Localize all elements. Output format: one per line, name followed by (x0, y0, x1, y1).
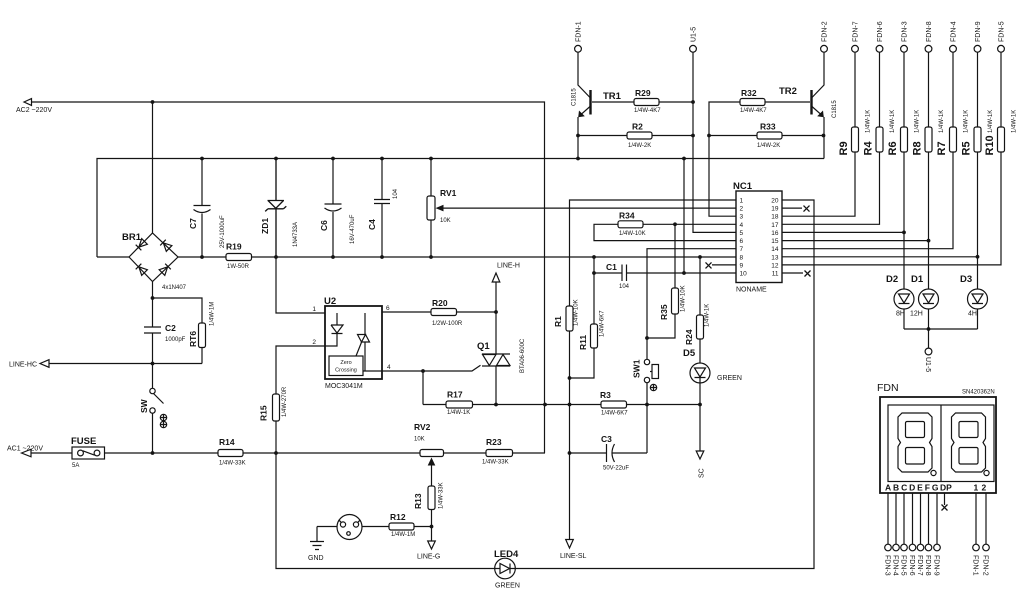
svg-text:2: 2 (982, 483, 987, 493)
svg-text:FDN-2: FDN-2 (982, 555, 989, 576)
svg-text:20: 20 (771, 198, 779, 205)
svg-text:R29: R29 (635, 88, 651, 98)
node AC1 terminal (7, 446, 43, 457)
svg-text:FUSE: FUSE (71, 436, 96, 447)
svg-text:FDN-1: FDN-1 (576, 21, 583, 42)
svg-text:1: 1 (312, 306, 316, 313)
wire FDN display pin G to terminal FDN-9 (933, 493, 941, 576)
ground GND (308, 527, 324, 563)
svg-text:1/4W-33K: 1/4W-33K (439, 482, 445, 509)
wire FDN display pin A to terminal FDN-3 (884, 493, 892, 576)
svg-text:D2: D2 (886, 274, 898, 285)
svg-text:FDN: FDN (877, 382, 899, 394)
svg-text:R13: R13 (413, 493, 423, 509)
svg-text:1: 1 (740, 198, 744, 205)
svg-text:1/4W-10K: 1/4W-10K (574, 299, 580, 326)
svg-text:1/4W-1K: 1/4W-1K (915, 110, 921, 133)
svg-text:R17: R17 (447, 390, 463, 400)
svg-text:104: 104 (619, 284, 630, 290)
potentiometer RV1 (427, 159, 457, 258)
svg-text:1/4W-2K: 1/4W-2K (628, 143, 651, 149)
wire NC1 pin19 stub (782, 206, 810, 212)
svg-text:10: 10 (740, 271, 748, 278)
wire U2 pin4 to gate and R17 (382, 365, 481, 371)
svg-text:12H: 12H (910, 311, 923, 318)
digit 1 of FDN display (898, 413, 932, 472)
svg-text:FDN-2: FDN-2 (822, 21, 829, 42)
svg-text:R33: R33 (760, 122, 776, 132)
svg-text:C4: C4 (367, 219, 377, 230)
wire emitter rail drop x684 (683, 159, 685, 274)
wire supply top rail (97, 159, 824, 258)
svg-text:AC1 ~220V: AC1 ~220V (7, 446, 43, 453)
svg-text:1W-50R: 1W-50R (227, 264, 250, 270)
svg-text:5: 5 (740, 230, 744, 237)
resistor R2 (578, 122, 695, 150)
potentiometer RV2 (414, 422, 444, 466)
wire NC1 pin7 to SW1 (647, 249, 736, 360)
zener diode ZD1 (260, 159, 299, 258)
resistor R19 (226, 242, 252, 271)
node LINE-H (492, 263, 520, 283)
svg-text:Zero: Zero (340, 360, 351, 366)
svg-text:FDN-8: FDN-8 (924, 555, 931, 576)
svg-text:1/4W-1M: 1/4W-1M (391, 532, 415, 538)
svg-text:1: 1 (974, 483, 979, 493)
resistor R9 with terminal FDN-7 to NC1 pin18 (782, 21, 872, 216)
svg-text:Crossing: Crossing (335, 368, 357, 374)
wire FDN display pin 1 to terminal FDN-1 (972, 493, 980, 576)
svg-text:R9: R9 (838, 141, 850, 155)
svg-text:2: 2 (740, 206, 744, 213)
svg-text:4x1N407: 4x1N407 (162, 285, 187, 291)
wire LED4 net from NC1 pin20 (515, 200, 814, 569)
resistor R35 (647, 222, 687, 338)
svg-text:R23: R23 (486, 437, 502, 447)
svg-text:RV2: RV2 (414, 422, 431, 432)
resistor R20 (431, 298, 463, 327)
display FDN seven-segment SN420362N (877, 382, 996, 493)
led D1 (910, 241, 939, 329)
node FDN-1 terminal (575, 21, 583, 52)
resistor R34 and loop to pin6 (594, 211, 736, 241)
wire LED4 to R15 column (276, 453, 495, 569)
svg-text:NC1: NC1 (733, 181, 753, 192)
digit 2 of FDN display (952, 413, 986, 472)
svg-text:R1: R1 (553, 316, 563, 327)
wire LED common to U1-5 terminal (904, 327, 978, 372)
svg-text:R5: R5 (961, 141, 973, 155)
svg-text:R3: R3 (600, 390, 611, 400)
svg-text:8H: 8H (896, 311, 905, 318)
svg-text:RT6: RT6 (188, 331, 198, 347)
svg-text:Q1: Q1 (477, 341, 490, 352)
svg-text:18: 18 (771, 214, 779, 221)
svg-text:104: 104 (393, 188, 399, 199)
svg-text:1/4W-6K7: 1/4W-6K7 (601, 411, 628, 417)
svg-text:16: 16 (771, 230, 779, 237)
svg-text:TR1: TR1 (603, 91, 622, 102)
transistor TR2 (765, 52, 838, 158)
svg-text:NONAME: NONAME (736, 287, 767, 294)
svg-text:FDN-4: FDN-4 (951, 21, 958, 42)
svg-text:2: 2 (312, 339, 316, 346)
wire SW1 to C3 (646, 383, 648, 453)
svg-text:FDN-4: FDN-4 (892, 555, 899, 576)
svg-text:BTA06-600C: BTA06-600C (520, 338, 526, 373)
svg-text:SC: SC (699, 468, 706, 478)
resistor R8 with terminal FDN-8 to NC1 pin15 (782, 21, 945, 242)
svg-text:R11: R11 (578, 335, 588, 350)
wire R11 bottom loop (570, 348, 595, 378)
wire AC2 bus (31, 102, 545, 453)
svg-text:1/4W-1K: 1/4W-1K (890, 110, 896, 133)
svg-text:1/4W-1K: 1/4W-1K (705, 304, 711, 327)
connector plug to GND (317, 515, 362, 540)
svg-text:9: 9 (740, 262, 744, 269)
resistor R6 with terminal FDN-3 to NC1 pin16 (782, 21, 921, 234)
svg-text:50V-22uF: 50V-22uF (603, 466, 629, 472)
svg-text:FDN-7: FDN-7 (916, 555, 923, 576)
svg-text:10K: 10K (414, 437, 425, 443)
capacitor C7 (188, 159, 226, 258)
resistor R1 (553, 299, 580, 331)
svg-text:LED4: LED4 (494, 549, 519, 560)
switch SW (139, 364, 167, 454)
svg-text:1/4W-10K: 1/4W-10K (681, 285, 687, 312)
svg-text:C1815: C1815 (572, 88, 578, 106)
resistor R15 (259, 386, 289, 421)
svg-text:1/4W-4K7: 1/4W-4K7 (740, 108, 767, 114)
svg-text:FDN-5: FDN-5 (900, 555, 907, 576)
capacitor C4 (367, 159, 399, 258)
svg-text:1/4W-33K: 1/4W-33K (219, 461, 246, 467)
led D3 (960, 257, 988, 329)
resistor R17 (446, 390, 473, 417)
svg-text:13: 13 (771, 254, 779, 261)
svg-text:RV1: RV1 (440, 188, 457, 198)
svg-text:FDN-9: FDN-9 (975, 21, 982, 42)
wire NC1 pin9 stub (706, 262, 737, 268)
svg-text:GREEN: GREEN (717, 375, 742, 382)
svg-text:U2: U2 (324, 296, 336, 307)
svg-text:16V-470uF: 16V-470uF (350, 214, 356, 244)
svg-text:FDN-5: FDN-5 (999, 21, 1006, 42)
svg-text:1/4W-4K7: 1/4W-4K7 (634, 108, 661, 114)
svg-text:1/4W-10K: 1/4W-10K (619, 231, 646, 237)
wire U2 pin2 to R15 (276, 346, 325, 453)
svg-text:R8: R8 (912, 141, 924, 155)
resistor R14 (218, 437, 246, 467)
svg-text:R12: R12 (390, 512, 406, 522)
wire FDN display pin DP stub (942, 493, 948, 511)
resistor R23 (482, 437, 513, 466)
svg-text:SN420362N: SN420362N (962, 390, 995, 396)
svg-text:6: 6 (740, 238, 744, 245)
resistor R33 (707, 122, 823, 150)
svg-text:FDN-3: FDN-3 (902, 21, 909, 42)
node U1-5 terminal and wire to NC1 pin5 (690, 27, 736, 233)
svg-text:4: 4 (740, 222, 744, 229)
svg-text:TR2: TR2 (779, 86, 797, 97)
resistor R7 with terminal FDN-4 to NC1 pin14 (782, 21, 970, 248)
svg-text:D3: D3 (960, 274, 972, 285)
node LINE-G (417, 541, 440, 561)
svg-text:17: 17 (771, 222, 779, 229)
svg-text:6: 6 (386, 305, 390, 312)
optocoupler U2 (312, 296, 391, 390)
svg-text:R19: R19 (226, 242, 242, 252)
wire U2 pin6 to R20 (382, 311, 496, 313)
capacitor C6 (319, 159, 356, 258)
svg-text:4H: 4H (968, 311, 977, 318)
svg-text:FDN-6: FDN-6 (908, 555, 915, 576)
node AC2 terminal (16, 99, 52, 114)
wire FDN display pin B to terminal FDN-4 (892, 493, 900, 576)
svg-text:GND: GND (308, 555, 324, 562)
svg-text:ABCDEFG: ABCDEFG (885, 483, 940, 493)
svg-text:R35: R35 (659, 304, 669, 320)
svg-text:LINE-HC: LINE-HC (9, 362, 37, 369)
wire FDN display pin E to terminal FDN-7 (916, 493, 924, 576)
svg-text:MOC3041M: MOC3041M (325, 383, 363, 390)
svg-text:LINE-SL: LINE-SL (560, 553, 587, 560)
svg-text:10K: 10K (440, 218, 451, 224)
svg-text:U1-5: U1-5 (691, 27, 698, 42)
triac Q1 (477, 338, 526, 373)
wire D5 to SC (699, 383, 701, 451)
svg-text:1/4W-270R: 1/4W-270R (282, 386, 288, 417)
svg-text:FDN-6: FDN-6 (877, 21, 884, 42)
resistor R5 with terminal FDN-9 to NC1 pin13 (782, 21, 994, 258)
svg-text:R6: R6 (887, 141, 899, 155)
svg-text:R15: R15 (259, 405, 269, 421)
wire R1 to LINE-SL column (569, 331, 571, 405)
svg-text:1/4W-33K: 1/4W-33K (482, 460, 509, 466)
transistor TR1 (572, 52, 635, 158)
switch SW1 (632, 359, 659, 390)
wire LINE-H / Q1 column (495, 282, 497, 405)
wire FDN display pin D to terminal FDN-6 (908, 493, 916, 576)
svg-text:7: 7 (740, 246, 744, 253)
wire NC1 pin1 to R1 (570, 200, 737, 306)
wire RV2 wiper column (431, 465, 433, 541)
svg-text:AC2 ~220V: AC2 ~220V (16, 107, 52, 114)
svg-text:1/4W-1K: 1/4W-1K (964, 110, 970, 133)
svg-text:R24: R24 (684, 329, 694, 345)
svg-text:4: 4 (387, 364, 391, 371)
svg-text:C7: C7 (188, 218, 198, 229)
svg-text:U1-5: U1-5 (924, 357, 931, 372)
svg-text:BR1: BR1 (122, 232, 142, 243)
svg-text:LINE-H: LINE-H (497, 263, 520, 270)
fuse FUSE (71, 436, 105, 469)
svg-text:1/4W-6K7: 1/4W-6K7 (600, 310, 606, 337)
svg-text:R14: R14 (219, 437, 235, 447)
svg-text:R7: R7 (936, 141, 948, 155)
svg-text:1/4W-1M: 1/4W-1M (210, 302, 216, 326)
resistor R32 and wire NC1 pin3 (709, 88, 767, 216)
led D5 (683, 348, 742, 383)
svg-text:3: 3 (740, 214, 744, 221)
resistor R4 with terminal FDN-6 to NC1 pin17 (782, 21, 896, 224)
resistor R13 (413, 482, 445, 509)
resistor R12 (362, 512, 432, 538)
wire AC1 bus (31, 452, 545, 454)
svg-text:12: 12 (771, 262, 779, 269)
svg-text:C3: C3 (601, 434, 612, 444)
svg-text:19: 19 (771, 206, 779, 213)
svg-text:5A: 5A (72, 463, 79, 469)
svg-text:R10: R10 (984, 135, 996, 155)
resistor R29 (634, 88, 695, 114)
wire NC1 pin2 to RV1 wiper (443, 207, 736, 209)
svg-text:1/4W-1K: 1/4W-1K (447, 410, 470, 416)
svg-text:1/4W-1K: 1/4W-1K (1012, 110, 1018, 133)
svg-text:SW1: SW1 (632, 359, 642, 378)
wire FDN display pin C to terminal FDN-5 (900, 493, 908, 576)
svg-text:DP: DP (940, 483, 952, 493)
node LINE-HC (9, 360, 202, 369)
capacitor C2 (144, 298, 186, 364)
svg-text:ZD1: ZD1 (260, 218, 270, 234)
node SC (696, 451, 705, 478)
svg-text:8: 8 (740, 254, 744, 261)
node FDN-2 terminal (821, 21, 829, 52)
capacitor C1 and wire NC1 pin10 (592, 257, 736, 324)
svg-text:D1: D1 (911, 274, 924, 285)
svg-text:1N4733A: 1N4733A (293, 222, 299, 247)
svg-text:FDN-1: FDN-1 (972, 555, 979, 576)
thermistor RT6 (153, 298, 216, 364)
wire VDD bus to NC1 pin 8 (97, 256, 736, 258)
node LINE-SL (560, 405, 587, 561)
svg-text:1/4W-1K: 1/4W-1K (866, 110, 872, 133)
svg-text:1/2W-100R: 1/2W-100R (432, 321, 463, 327)
svg-text:C1815: C1815 (832, 100, 838, 118)
svg-text:GREEN: GREEN (495, 583, 520, 590)
svg-text:R4: R4 (863, 141, 875, 156)
svg-text:1/4W-1K: 1/4W-1K (939, 110, 945, 133)
svg-text:FDN-7: FDN-7 (853, 21, 860, 42)
svg-text:R2: R2 (632, 122, 643, 132)
svg-text:FDN-3: FDN-3 (884, 555, 891, 576)
wire NC1 pin11 stub (782, 271, 811, 277)
svg-text:11: 11 (772, 271, 779, 278)
led LED4 (494, 549, 520, 590)
svg-text:C1: C1 (606, 262, 617, 272)
svg-text:C6: C6 (319, 220, 329, 231)
wire triac output bus (423, 371, 700, 405)
svg-text:15: 15 (771, 238, 779, 245)
svg-text:FDN-8: FDN-8 (926, 21, 933, 42)
svg-text:1/4W-1K: 1/4W-1K (988, 110, 994, 133)
wire U2 pin1 from VDD bus (276, 257, 325, 313)
resistor R24 (684, 257, 711, 363)
svg-text:R32: R32 (741, 88, 757, 98)
svg-text:1000pF: 1000pF (165, 337, 186, 343)
bridge rectifier BR1 (122, 102, 187, 300)
svg-text:14: 14 (771, 246, 779, 253)
capacitor C3 (568, 434, 647, 472)
wire FDN display pin F to terminal FDN-8 (924, 493, 932, 576)
svg-text:R20: R20 (432, 298, 448, 308)
led D2 (886, 232, 914, 329)
svg-text:FDN-9: FDN-9 (933, 555, 940, 576)
ic NC1 (733, 181, 782, 294)
resistor R10 with terminal FDN-5 to NC1 pin12 (782, 21, 1018, 265)
svg-text:1/4W-2K: 1/4W-2K (757, 143, 780, 149)
resistor R11 (578, 310, 606, 350)
svg-text:SW: SW (139, 398, 149, 413)
svg-text:D5: D5 (683, 348, 696, 359)
svg-text:C2: C2 (165, 323, 176, 333)
svg-text:R34: R34 (619, 211, 635, 221)
svg-text:LINE-G: LINE-G (417, 554, 440, 561)
resistor R3 (600, 390, 628, 417)
wire FDN display pin 2 to terminal FDN-2 (982, 493, 990, 576)
